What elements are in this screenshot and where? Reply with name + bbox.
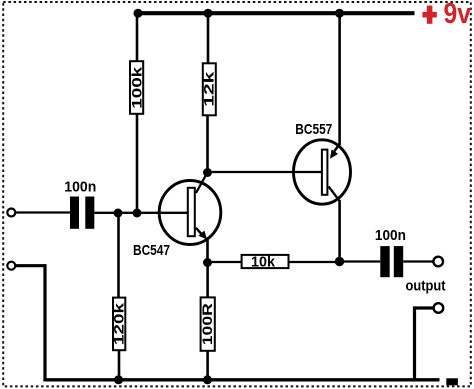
transistor Q2 BC557 [294,140,351,204]
node junction dot input bias right [133,209,142,218]
svg-text:output: output [406,277,446,294]
node junction dot output [335,257,344,266]
wire 100k bottom lead to input node [136,114,139,213]
wire BC547 collector to BC557 base [208,171,324,173]
wire input lower terminal to ground rail [16,264,46,380]
terminal input lower [7,262,15,270]
wire 100k top lead [136,13,139,62]
resistor R 12k [202,63,217,115]
capacitor C2 100n output [375,227,406,277]
svg-text:BC547: BC547 [133,242,170,259]
svg-text:100k: 100k [129,66,144,108]
capacitor C1 100n input [64,178,96,229]
wire 120k top lead [117,213,120,297]
svg-text:BC557: BC557 [295,121,332,138]
svg-text:100R: 100R [200,303,215,345]
node junction dot input bias left [114,209,123,218]
svg-text:100n: 100n [375,227,406,244]
wire BC557 emitter to rail [338,13,341,145]
wire output node to capacitor [340,260,381,262]
wire 100R top lead [206,263,209,298]
resistor R 100k [129,61,144,114]
svg-text:9v: 9v [444,0,472,30]
resistor R 10k [242,253,289,270]
wire BC557 collector to output node [338,200,341,262]
wire 12k bottom lead to BC547 collector node [206,116,209,173]
wire emitter node to 10k [208,261,242,263]
node junction dot top rail right [335,9,344,18]
svg-text:12k: 12k [202,71,217,106]
node junction dot ground 100R [203,375,212,384]
wire 120k bottom lead [118,351,121,380]
wire capacitor to output terminal [403,260,432,262]
wire +9V top rail [138,11,415,15]
wire 10k to output node [290,261,340,263]
terminal output upper [433,257,443,267]
svg-text:100n: 100n [64,178,96,195]
resistor R 100R [200,297,215,350]
wire input to capacitor [16,211,71,213]
wire capacitor to BC547 base [94,212,188,214]
wire BC547 emitter down [206,239,209,263]
wire ground bottom rail [43,378,439,381]
wire 12k top lead [207,13,210,63]
label +9v supply [422,0,471,30]
svg-text:10k: 10k [251,253,276,270]
node junction dot BC547 collector [203,168,212,177]
node junction dot top rail left [134,9,143,18]
transistor Q1 BC547 [159,174,221,245]
terminal output lower [434,303,444,313]
node junction dot ground 120k [114,375,123,384]
resistor R 120k [112,298,127,351]
node junction dot emitter feedback [203,258,212,267]
wire output lower terminal to ground rail [415,306,434,380]
terminal input upper [7,209,15,217]
wire 100R bottom lead [206,352,209,381]
svg-text:120k: 120k [112,303,127,345]
node junction dot top rail middle [204,9,213,18]
